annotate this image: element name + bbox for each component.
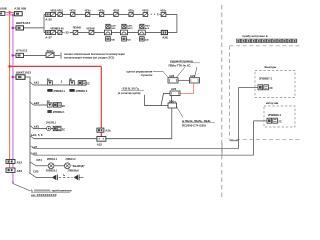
svg-text:2ПВА4.2: 2ПВА4.2 bbox=[66, 158, 77, 161]
box ShKK71012 bbox=[16, 75, 25, 80]
svg-text:ЧЕ0S: ЧЕ0S bbox=[113, 9, 120, 12]
leader bottom note bbox=[13, 184, 31, 192]
pair A-27 bbox=[46, 31, 51, 35]
stub magenta 2 bbox=[13, 54, 16, 56]
svg-text:2ПВ0В1.3: 2ПВ0В1.3 bbox=[76, 90, 88, 93]
wire splitter vertical bbox=[43, 15, 45, 33]
svg-text:см. ХХХХХХХХХХ: см. ХХХХХХХХХХ bbox=[31, 193, 57, 197]
svg-text:2ПВ0В8.1: 2ПВ0В8.1 bbox=[268, 113, 281, 117]
svg-text:А1В.008: А1В.008 bbox=[14, 7, 26, 11]
svg-text:прибу жотровно Б: прибу жотровно Б bbox=[242, 34, 267, 38]
svg-text:кв/лучив: кв/лучив bbox=[266, 101, 279, 105]
svg-text:ЧЕ02: ЧЕ02 bbox=[70, 9, 77, 12]
arrowhead violet end bbox=[12, 181, 14, 184]
leader ZP04 note bbox=[177, 107, 184, 118]
wire 29A1 out bbox=[54, 54, 60, 56]
wire A28-A29 bbox=[178, 79, 190, 81]
svg-text:2ЧSЛ3.1: 2ЧSЛ3.1 bbox=[46, 122, 57, 125]
wire red vertical bbox=[100, 66, 102, 128]
dashed box KV bbox=[264, 106, 295, 127]
switch 29A1 bbox=[46, 53, 54, 58]
terminal pair BK1 bbox=[78, 81, 82, 85]
jog bbox=[230, 140, 239, 142]
svg-text:2С: 2С bbox=[269, 86, 272, 90]
breaker cluster 2 bbox=[121, 24, 134, 41]
svg-text:А70.013: А70.013 bbox=[16, 48, 28, 52]
connector X1 bbox=[52, 175, 57, 180]
pair A-25 bbox=[46, 13, 51, 17]
wire vyhody bbox=[239, 87, 259, 89]
svg-text:А23: А23 bbox=[17, 169, 23, 173]
fuse F16 bbox=[129, 13, 133, 17]
wire red A24-A22 bbox=[100, 132, 102, 137]
wire top-left violet bbox=[5, 14, 16, 16]
lamp HL1 bbox=[48, 163, 54, 169]
wire top-left red bbox=[5, 11, 15, 13]
svg-text:"ВЫХОД": "ВЫХОД" bbox=[72, 164, 86, 168]
svg-text:ПВКв-ТТК-0ч.ХС: ПВКв-ТТК-0ч.ХС bbox=[169, 64, 191, 68]
svg-text:(к розетке щита): (к розетке щита) bbox=[118, 91, 140, 95]
junction red main bbox=[9, 65, 11, 67]
svg-text:2С: 2С bbox=[86, 81, 89, 85]
svg-text:2ПВ0В7.1: 2ПВ0В7.1 bbox=[259, 77, 272, 81]
svg-text:судовой провод: судовой провод bbox=[170, 59, 193, 63]
svg-text:ЧЕ0-06: ЧЕ0-06 bbox=[56, 27, 65, 30]
svg-text:ЬК1: ЬК1 bbox=[34, 81, 40, 85]
svg-text:ЧЕ01: ЧЕ01 bbox=[57, 9, 64, 12]
shield mark S1a bbox=[47, 89, 52, 92]
breaker cluster 1 bbox=[104, 24, 116, 41]
svg-text:8.008: 8.008 bbox=[0, 7, 7, 11]
fuse F14 bbox=[99, 13, 103, 17]
svg-text:ЧЕ0ь: ЧЕ0ь bbox=[128, 9, 135, 12]
wire ShKK71012 to bus bbox=[25, 76, 30, 78]
box A22 left bbox=[6, 160, 15, 164]
svg-text:2ПВА4.1: 2ПВА4.1 bbox=[47, 158, 58, 161]
breaker cluster 3 bbox=[138, 24, 150, 41]
svg-text:ЬК4, 5, 6: ЬК4, 5, 6 bbox=[31, 133, 43, 137]
fuse F12 bbox=[71, 13, 75, 17]
svg-text:сигнализации пожара (см. разде: сигнализации пожара (см. раздел ЭС1) bbox=[64, 55, 114, 59]
svg-text:2ПВ0В1.1: 2ПВ0В1.1 bbox=[53, 90, 65, 93]
wire red horizontal bbox=[10, 65, 102, 67]
svg-text:СЛ5: СЛ5 bbox=[33, 170, 39, 174]
shield mark S1b bbox=[69, 89, 74, 92]
fuse F23 bbox=[89, 31, 94, 35]
svg-text:ЧЕ0ь: ЧЕ0ь bbox=[99, 9, 106, 12]
terminal strip bbox=[236, 39, 296, 43]
leader panel bbox=[153, 71, 169, 78]
lamp HL2 bbox=[64, 163, 70, 169]
wire row1 bbox=[56, 14, 149, 16]
svg-text:ПЕ0НВ: ПЕ0НВ bbox=[73, 27, 81, 30]
leader to A28 bbox=[177, 67, 186, 77]
svg-text:2С: 2С bbox=[62, 127, 65, 131]
stub crossing divider bbox=[221, 143, 223, 155]
fuse F18 bbox=[161, 13, 166, 17]
svg-text:ЧЕ0В: ЧЕ0В bbox=[50, 9, 57, 12]
rail red left bbox=[9, 12, 11, 168]
svg-text:КАI: КАI bbox=[127, 38, 131, 41]
svg-text:2С: 2С bbox=[62, 104, 65, 108]
box A1V.008 bbox=[14, 12, 22, 16]
stub magenta 1 bbox=[13, 27, 16, 29]
box A70.013 bbox=[16, 53, 24, 57]
svg-text:ПАI: ПАI bbox=[111, 38, 115, 41]
fuse F11 bbox=[58, 13, 62, 17]
svg-text:А23: А23 bbox=[171, 87, 177, 91]
svg-text:ЬАI: ЬАI bbox=[145, 38, 149, 41]
svg-text:А2Ь: А2Ь bbox=[105, 129, 111, 133]
rail violet left bbox=[12, 15, 14, 184]
svg-text:ШКК71012: ШКК71012 bbox=[16, 70, 31, 74]
switch A22 bbox=[97, 137, 106, 142]
stub 230V bbox=[143, 95, 145, 106]
svg-text:Выходы: Выходы bbox=[265, 65, 277, 69]
wire ZP04 down bbox=[171, 108, 173, 139]
divider dashed bbox=[221, 5, 223, 197]
svg-text:ЧЕ0НВ: ЧЕ0НВ bbox=[87, 27, 95, 30]
fuse F17 bbox=[143, 13, 148, 17]
terminals KV bbox=[267, 118, 272, 123]
svg-text:2ПВ0SЬ6: 2ПВ0SЬ6 bbox=[68, 169, 80, 172]
svg-text:сигнал обеспечения безопасност: сигнал обеспечения безопасности коммутац… bbox=[64, 52, 125, 56]
svg-text:Ь: Ь bbox=[63, 173, 65, 177]
svg-text:ЧЕ0ь: ЧЕ0ь bbox=[160, 9, 167, 12]
svg-text:ЬК2: ЬК2 bbox=[34, 101, 40, 105]
svg-text:пультом: пультом bbox=[141, 73, 153, 77]
wire A70.013 to 29A1 bbox=[24, 54, 47, 56]
wire row2 b bbox=[70, 32, 162, 34]
box ShKT8.012 bbox=[16, 26, 24, 30]
enclosure dashed bbox=[230, 45, 301, 47]
fuse F13 bbox=[85, 13, 89, 17]
svg-text:А-25: А-25 bbox=[45, 18, 52, 22]
box A18.008 bbox=[0, 12, 5, 16]
wire A23-ZP04 bbox=[171, 96, 173, 103]
svg-text:2ПВ0В2.1: 2ПВ0В2.1 bbox=[53, 111, 65, 114]
wire row1 return bbox=[166, 15, 177, 33]
terminals vyhody bbox=[258, 85, 263, 90]
svg-text:ШКТ8.012: ШКТ8.012 bbox=[16, 21, 31, 25]
svg-text:2ПВ0S5.1: 2ПВ0S5.1 bbox=[46, 169, 58, 172]
terminator tick bbox=[60, 53, 62, 59]
svg-text:А2Б: А2Б bbox=[162, 35, 169, 39]
fuse F15 bbox=[114, 13, 119, 17]
break ZS bbox=[64, 32, 65, 34]
svg-text:А22: А22 bbox=[97, 142, 103, 146]
wire row2 bbox=[56, 32, 64, 34]
svg-text:3: 3 bbox=[61, 79, 63, 83]
wire KV bbox=[253, 120, 267, 122]
svg-text:А-27: А-27 bbox=[45, 36, 52, 40]
wire red A29-A23 bbox=[180, 83, 194, 93]
wire lamps bbox=[54, 165, 64, 167]
leader to A29 bbox=[195, 67, 198, 77]
svg-text:ЧЕ0о: ЧЕ0о bbox=[85, 9, 92, 12]
svg-text:ЬК3: ЬК3 bbox=[34, 124, 40, 128]
dashed box vyhody bbox=[255, 71, 295, 98]
fuse A24 bbox=[97, 128, 104, 132]
junction violet top bbox=[12, 14, 14, 16]
cable dashed bbox=[59, 176, 73, 178]
junction red top bbox=[9, 11, 11, 13]
wire A23 left bbox=[144, 93, 170, 105]
svg-text:ЗС: ЗС bbox=[65, 31, 69, 35]
box A23 left bbox=[6, 168, 15, 172]
pair A-26 bbox=[161, 30, 167, 34]
svg-text:А22: А22 bbox=[17, 160, 23, 164]
fuse F21 bbox=[58, 31, 62, 35]
svg-text:~230 В, 50 Гц: ~230 В, 50 Гц bbox=[121, 87, 139, 91]
svg-text:СЛ4: СЛ4 bbox=[36, 158, 42, 162]
break dots row1 bbox=[151, 14, 152, 15]
stub magenta 3 bbox=[13, 76, 16, 78]
svg-text:2С: 2С bbox=[278, 120, 281, 124]
svg-text:ЧЕ0S: ЧЕ0S bbox=[142, 9, 149, 12]
wire row1 end bbox=[159, 14, 161, 16]
connector X2 bbox=[74, 175, 79, 180]
svg-text:ЯС2000-С74-/220): ЯС2000-С74-/220) bbox=[182, 123, 206, 127]
bus vertical bbox=[29, 77, 31, 174]
wire ShKT8.012 to splitter bbox=[24, 27, 45, 29]
